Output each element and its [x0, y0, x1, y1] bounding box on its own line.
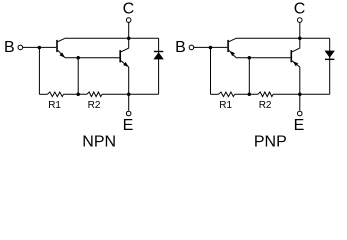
node Q3 emitter junction [248, 56, 252, 60]
transistor Q2 emitter arrow (pointing out, NPN) [123, 62, 129, 67]
wire Q3 emitter to Q4 base [236, 57, 291, 59]
wire bottom rail between R1 and R2 [64, 93, 87, 95]
terminal B circle [18, 45, 23, 50]
transistor Q4 base bar [290, 50, 292, 62]
wire Q1 emitter to Q2 base [65, 57, 120, 59]
terminal C circle [126, 18, 131, 23]
node emitter junction on bottom rail [127, 93, 131, 97]
svg-text:B: B [4, 39, 15, 56]
svg-text:E: E [294, 117, 305, 134]
diode D1 anode triangle [153, 52, 163, 59]
resistor R1 zigzag [47, 92, 63, 97]
wire top rail (collector net) [236, 37, 330, 39]
wire top rail (collector net) [65, 37, 159, 39]
diode D2 anode triangle [325, 51, 335, 58]
wire right branch (diode) [329, 38, 331, 94]
transistor Q2 base bar [119, 50, 121, 62]
transistor Q1 base bar [56, 40, 58, 52]
wire C terminal to top rail [128, 23, 130, 39]
wire right branch (diode) [158, 38, 160, 94]
svg-text:NPN: NPN [82, 134, 116, 151]
svg-text:R2: R2 [88, 100, 101, 111]
wire B terminal to base node [194, 46, 227, 48]
node resistor junction [248, 93, 252, 97]
wire bottom rail between R3 and R4 [235, 93, 258, 95]
node collector junction [127, 37, 131, 41]
node B junction [209, 46, 213, 50]
transistor Q3 emitter arrow (pointing in, PNP) [230, 51, 235, 56]
diode D2 cathode bar [325, 58, 334, 60]
terminal E circle [126, 111, 131, 116]
wire B junction down to bottom rail [210, 47, 212, 94]
svg-text:R1: R1 [219, 100, 232, 111]
node resistor junction [76, 93, 80, 97]
svg-text:C: C [123, 1, 135, 18]
transistor Q1 collector lead [58, 38, 65, 41]
transistor Q3 emitter lead [229, 50, 236, 57]
transistor Q4 emitter lead [292, 61, 300, 67]
wire bottom rail right segment [273, 93, 330, 95]
wire Q2 emitter down to bottom rail [128, 67, 130, 94]
terminal C circle [297, 18, 302, 23]
node Q1 emitter junction [76, 56, 80, 60]
wire Q4 emitter down to bottom rail [299, 67, 301, 94]
terminal B circle [189, 45, 194, 50]
node B junction [38, 46, 42, 50]
wire E terminal [128, 94, 130, 110]
terminal E circle [297, 111, 302, 116]
wire B terminal to base node [23, 46, 56, 48]
diode D1 cathode bar [154, 51, 163, 53]
node collector junction [298, 37, 302, 41]
svg-text:C: C [294, 1, 306, 18]
svg-text:PNP: PNP [254, 134, 287, 151]
transistor Q3 collector lead [229, 38, 236, 41]
svg-text:E: E [123, 117, 134, 134]
transistor Q3 base bar [227, 40, 229, 52]
resistor R3 zigzag [219, 92, 235, 97]
node emitter junction on bottom rail [298, 93, 302, 97]
transistor Q1 emitter lead [58, 50, 65, 57]
wire bottom rail left segment [211, 93, 219, 95]
resistor R4 zigzag [258, 92, 273, 97]
wire B junction down to bottom rail [38, 47, 40, 94]
transistor Q4 emitter arrow (pointing in, PNP) [293, 61, 299, 66]
transistor Q2 emitter lead [121, 61, 129, 67]
transistor Q4 collector lead [292, 38, 300, 52]
svg-text:R2: R2 [259, 100, 272, 111]
wire Q3 emitter node down to resistor node [248, 58, 250, 95]
wire E terminal [299, 94, 301, 110]
transistor Q2 collector lead [121, 38, 129, 52]
svg-text:B: B [175, 39, 186, 56]
wire C terminal to top rail [299, 23, 301, 39]
wire bottom rail right segment [102, 93, 159, 95]
resistor R2 zigzag [87, 92, 102, 97]
svg-text:R1: R1 [48, 100, 61, 111]
wire Q1 emitter node down to resistor node [77, 58, 79, 95]
transistor Q1 emitter arrow (pointing out, NPN) [59, 52, 64, 57]
wire bottom rail left segment [39, 93, 47, 95]
